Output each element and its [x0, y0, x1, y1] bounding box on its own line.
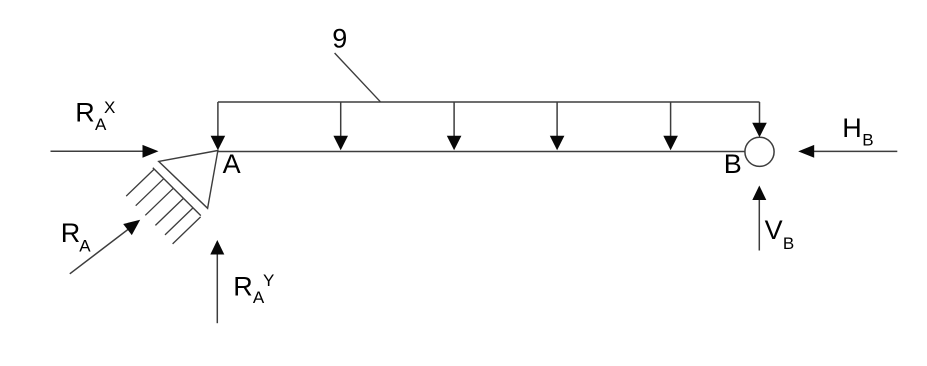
svg-text:A: A — [79, 237, 91, 256]
label RAY — [233, 271, 274, 307]
label VB — [765, 215, 795, 253]
arrow HB (horizontal reaction at B) — [798, 145, 897, 158]
arrow RAX (horizontal reaction at A) — [51, 145, 159, 158]
pinned support triangle at A — [159, 151, 218, 209]
arrow RAY (vertical reaction at A) — [210, 240, 224, 323]
load arrow 2 — [333, 102, 348, 150]
load arrow 6 (onto roller at B) — [752, 102, 767, 137]
load arrow 3 — [447, 102, 462, 150]
load arrow 1 — [211, 102, 226, 150]
svg-text:A: A — [223, 149, 241, 179]
svg-text:B: B — [862, 131, 873, 150]
svg-text:9: 9 — [332, 24, 347, 54]
svg-text:R: R — [75, 98, 95, 128]
leader line from 9 to load top line — [335, 53, 381, 102]
roller circle at B — [745, 137, 774, 166]
svg-text:B: B — [783, 234, 794, 253]
svg-text:R: R — [233, 272, 253, 302]
load arrow 5 — [663, 102, 678, 150]
load arrow 4 — [550, 102, 565, 150]
svg-text:Y: Y — [263, 271, 274, 290]
svg-text:X: X — [104, 98, 115, 117]
label HB — [842, 113, 873, 149]
svg-text:A: A — [95, 115, 107, 134]
arrow VB (vertical reaction at B) — [752, 186, 766, 251]
svg-text:V: V — [765, 215, 783, 245]
beam A-B — [218, 151, 745, 153]
ground line of support — [153, 168, 201, 216]
distributed load top line — [218, 101, 760, 103]
label RA — [61, 218, 92, 256]
svg-text:B: B — [724, 149, 742, 179]
svg-text:A: A — [253, 288, 265, 307]
svg-text:H: H — [842, 113, 862, 143]
svg-text:R: R — [61, 218, 81, 248]
label RAX — [75, 98, 115, 134]
ground hatching — [126, 169, 200, 244]
arrow RA (resultant reaction, diagonal) — [70, 220, 140, 274]
